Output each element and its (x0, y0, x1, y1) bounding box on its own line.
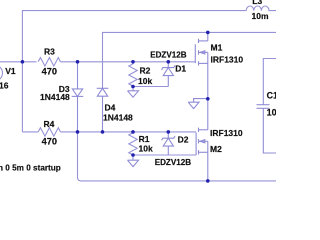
svg-text:EDZV12B: EDZV12B (150, 50, 187, 59)
svg-text:M1: M1 (211, 42, 223, 52)
node dot: R2 bottom (131, 85, 135, 89)
capacitor C1 (257, 105, 277, 153)
svg-text:470: 470 (42, 137, 57, 147)
svg-text:470: 470 (42, 66, 57, 76)
node dot: R2 top (131, 60, 135, 64)
mosfet M2 IRF1310 (196, 99, 208, 181)
svg-text:R2: R2 (140, 65, 151, 75)
svg-text:C1: C1 (267, 90, 276, 100)
wire: M1 drain rail y32.4 with corner down to D4 (103, 32, 277, 88)
svg-text:10m: 10m (252, 11, 269, 21)
node dot: V1 junction (21, 60, 25, 64)
wire: lower rail y132 from left bus to M2 gate-bar top (22, 131, 196, 133)
node dot: D4 bottom (101, 130, 105, 134)
svg-text:D2: D2 (178, 134, 189, 144)
svg-text:EDZV12B: EDZV12B (155, 158, 192, 167)
node dot: R1 bottom (131, 153, 135, 157)
svg-text:10k: 10k (138, 76, 152, 86)
node dot: D3 top (76, 60, 80, 64)
svg-text:L3: L3 (252, 0, 262, 6)
diode D3 1N4148 (72, 62, 84, 132)
node dot: M1 drain (206, 31, 210, 35)
wire: V1 to left bus at y62 (0, 61, 37, 63)
node dot: M2 source at bottom rail (206, 179, 210, 183)
inductor L3 (246, 6, 276, 11)
svg-text:10: 10 (267, 108, 276, 118)
svg-text:D1: D1 (175, 64, 186, 74)
ground under R2 (128, 91, 139, 97)
wire: main upper gate wire y62 from R3 to M1 gate (61, 61, 196, 63)
diode D4 1N4148 (97, 88, 109, 132)
resistor R1 (129, 132, 137, 160)
svg-text:IRF1310: IRF1310 (211, 54, 244, 64)
svg-text:n 0 5m 0 startup: n 0 5m 0 startup (0, 163, 61, 172)
node dot: R1 top (131, 130, 135, 134)
wire: R2 bottom to D1 bottom (133, 86, 168, 88)
svg-text:1N4148: 1N4148 (40, 92, 70, 102)
svg-text:V1: V1 (5, 66, 16, 76)
wire: right edge to capacitor C1 branch (263, 59, 276, 105)
svg-text:R4: R4 (44, 119, 55, 129)
resistor R4 (38, 128, 60, 136)
node dot: D1 top (167, 60, 171, 64)
ground under R1 (128, 160, 139, 166)
wire: top rail from left bus to inductor L3 (22, 11, 246, 132)
resistor R3 (38, 58, 60, 66)
svg-text:IRF1310: IRF1310 (210, 128, 243, 138)
zener diode D1 EDZV12B (162, 62, 175, 87)
node dot: D3 bottom (76, 130, 80, 134)
node dot: D2 top (167, 130, 171, 134)
svg-text:10k: 10k (139, 144, 153, 154)
wire: R1 bottom / D2 bottom to M2 gate (133, 154, 196, 156)
svg-text:R1: R1 (139, 134, 150, 144)
svg-text:1N4148: 1N4148 (103, 112, 133, 122)
wire: left drop to bottom rail (78, 132, 277, 181)
svg-text:M2: M2 (210, 144, 222, 154)
ground at mid node (188, 99, 208, 109)
mosfet M1 IRF1310 (195, 32, 208, 98)
voltage source V1 (circle mostly off-canvas) (0, 65, 3, 81)
node dot: mid node (206, 97, 210, 101)
svg-text:R3: R3 (44, 47, 55, 57)
svg-text:D4: D4 (105, 102, 116, 112)
resistor R2 (129, 62, 137, 91)
zener diode D2 EDZV12B (162, 132, 175, 155)
svg-text:16: 16 (0, 81, 9, 91)
